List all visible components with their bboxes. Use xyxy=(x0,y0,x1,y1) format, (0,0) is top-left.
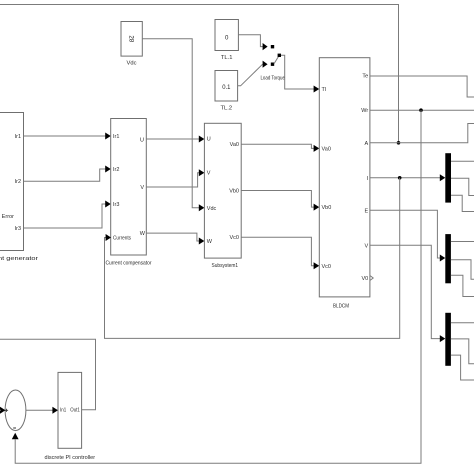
svg-text:nt generator: nt generator xyxy=(0,256,38,262)
manual switch upper input arrow xyxy=(263,43,268,50)
wire Wr feedback down/left to sum xyxy=(15,110,421,463)
port chevron V0 unconnected xyxy=(370,276,373,281)
svg-text:Load Torque: Load Torque xyxy=(260,76,285,82)
svg-text:W: W xyxy=(207,239,213,245)
arrowhead Vdc input xyxy=(199,204,205,211)
wire demux1 out1 xyxy=(451,160,474,162)
arrowhead V xyxy=(199,169,205,176)
svg-text:28: 28 xyxy=(127,35,134,42)
svg-text:Vdc: Vdc xyxy=(127,61,137,67)
sum block ellipse xyxy=(5,390,26,431)
wire Vdc to Subsystem1 Vdc input xyxy=(142,39,199,208)
wire Ir3 with jog xyxy=(24,204,106,228)
wire V out to demux3 xyxy=(370,245,440,338)
node I junction xyxy=(398,176,402,180)
wire U compensator to Subsystem1 xyxy=(146,138,199,140)
svg-text:TL.1: TL.1 xyxy=(221,55,233,61)
svg-text:Vc0: Vc0 xyxy=(230,235,239,241)
wire sum to PI xyxy=(26,409,53,411)
svg-text:E: E xyxy=(365,208,369,214)
wire demux1 out2 xyxy=(451,178,474,195)
arrowhead Vc0 xyxy=(314,262,320,269)
svg-text:Ir1: Ir1 xyxy=(113,134,119,140)
arrowhead Currents input xyxy=(106,234,111,241)
wire I out to demux1 xyxy=(370,177,440,179)
block BLDCM xyxy=(319,58,370,297)
arrowhead Va0 xyxy=(314,145,320,152)
manual switch upper contact square xyxy=(271,45,274,48)
svg-text:Wr: Wr xyxy=(361,108,368,114)
svg-text:TL.2: TL.2 xyxy=(220,106,232,112)
wire Te staircase to right edge xyxy=(370,76,474,97)
arrowhead W xyxy=(199,238,205,245)
wire V compensator to Subsystem1 xyxy=(146,173,199,187)
wire Va0 to BLDCM xyxy=(241,144,314,148)
svg-text:V: V xyxy=(365,243,369,249)
arrowhead PI input xyxy=(52,407,58,414)
arrowhead Vb0 xyxy=(314,204,320,211)
wire demux3 out3 xyxy=(451,355,474,380)
svg-text:Vdc: Vdc xyxy=(207,206,217,212)
wire demux2 out1 xyxy=(451,241,474,243)
sum plus sign xyxy=(5,409,8,412)
wire Ir2 with jog xyxy=(24,169,106,181)
arrowhead demux3 input xyxy=(440,335,446,342)
wire TL.2 to manual switch lower input (diagonal) xyxy=(238,64,263,86)
svg-text:In1: In1 xyxy=(60,408,66,414)
manual switch lower contact square xyxy=(271,63,274,66)
block reference current generator (cut off at left) xyxy=(0,113,24,251)
arrowhead Tl input xyxy=(314,86,320,93)
wire speed ref stub xyxy=(0,409,1,411)
manual switch lower input arrow xyxy=(263,61,268,68)
wire Ir1 xyxy=(24,135,106,137)
svg-text:Ir2: Ir2 xyxy=(15,179,21,185)
svg-text:Currents: Currents xyxy=(113,236,131,242)
wire demux2 out2 xyxy=(451,260,474,280)
svg-text:V: V xyxy=(140,185,144,191)
block Current compensator xyxy=(111,119,147,256)
arrowhead Wr feedback into sum (up) xyxy=(12,433,19,440)
svg-text:0.1: 0.1 xyxy=(222,84,231,91)
wire demux3 out2 xyxy=(451,339,474,364)
manual switch lever diagonal xyxy=(274,56,279,64)
wire E out to demux2 xyxy=(370,210,440,258)
svg-text:BLDCM: BLDCM xyxy=(333,304,349,310)
svg-text:U: U xyxy=(140,137,144,143)
node Wr junction xyxy=(419,108,423,112)
svg-text:Vb0: Vb0 xyxy=(229,189,239,195)
svg-text:Subsystem1: Subsystem1 xyxy=(212,263,239,269)
arrowhead Ir2 xyxy=(105,166,111,173)
wire demux1 out3 xyxy=(451,195,474,211)
demux D1 xyxy=(445,153,451,202)
wire I feedback to Currents input xyxy=(105,178,400,339)
svg-text:Tl: Tl xyxy=(322,87,327,93)
svg-text:Vc0: Vc0 xyxy=(322,264,331,270)
svg-text:Te: Te xyxy=(362,74,368,80)
arrowhead demux2 input xyxy=(440,255,446,262)
wire A staircase to right edge xyxy=(370,124,474,143)
svg-text:Va0: Va0 xyxy=(230,142,239,148)
svg-text:V0: V0 xyxy=(361,276,368,282)
arrowhead demux1 input xyxy=(440,174,446,181)
arrowhead U xyxy=(199,136,205,143)
arrowhead Ir1 xyxy=(105,133,111,140)
wire switch output to BLDCM Tl input xyxy=(281,55,314,89)
wire Vb0 to BLDCM xyxy=(241,191,314,208)
block Subsystem1 xyxy=(204,123,241,258)
svg-text:Ir3: Ir3 xyxy=(113,202,119,208)
svg-text:discrete PI controller: discrete PI controller xyxy=(45,455,96,461)
wire W compensator to Subsystem1 xyxy=(146,233,199,241)
svg-text:0: 0 xyxy=(225,35,229,42)
svg-text:Va0: Va0 xyxy=(322,146,331,152)
svg-text:Ir2: Ir2 xyxy=(113,167,119,173)
wire top A-signal to left edge xyxy=(0,5,399,143)
manual switch pivot square xyxy=(278,54,281,57)
svg-text:d Error: d Error xyxy=(0,214,14,220)
wire PI out loop to left edge xyxy=(0,339,96,409)
block TL.1 constant 0 xyxy=(215,20,238,51)
wire TL.1 to manual switch upper input xyxy=(238,35,263,47)
svg-text:Current compensator: Current compensator xyxy=(106,261,152,267)
wire demux2 out3 xyxy=(451,275,474,296)
node A junction xyxy=(397,141,401,145)
wire Wr out straight to right edge xyxy=(370,109,474,111)
block Vdc constant 28 xyxy=(121,22,142,57)
arrowhead Ir3 xyxy=(105,201,111,208)
block discrete PI controller xyxy=(58,372,82,448)
svg-text:Out1: Out1 xyxy=(70,408,80,414)
arrowhead speed ref into sum xyxy=(0,407,5,414)
demux D3 xyxy=(445,313,451,366)
svg-text:Ir1: Ir1 xyxy=(15,134,21,140)
block TL.2 constant 0.1 xyxy=(215,71,238,102)
svg-text:Vb0: Vb0 xyxy=(322,205,332,211)
svg-text:A: A xyxy=(365,141,369,147)
wire demux3 out1 xyxy=(451,322,474,324)
svg-text:V: V xyxy=(207,171,211,177)
svg-text:Ir3: Ir3 xyxy=(15,226,21,232)
sum minus sign xyxy=(13,427,16,429)
wire Vc0 to BLDCM xyxy=(241,237,314,266)
demux D2 xyxy=(445,234,451,283)
svg-text:W: W xyxy=(140,231,146,237)
svg-text:U: U xyxy=(207,137,211,143)
